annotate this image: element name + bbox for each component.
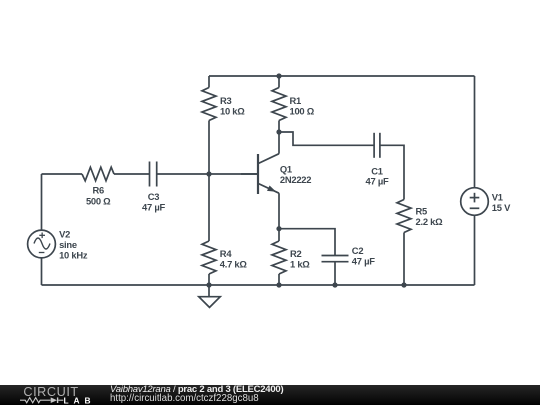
svg-text:V2: V2 [59, 228, 70, 239]
svg-text:V1: V1 [492, 192, 503, 203]
svg-text:500 Ω: 500 Ω [86, 196, 111, 207]
svg-text:R4: R4 [220, 248, 233, 259]
svg-text:C1: C1 [371, 165, 383, 176]
svg-text:R3: R3 [220, 95, 232, 106]
svg-text:2.2 kΩ: 2.2 kΩ [416, 216, 444, 227]
svg-text:100 Ω: 100 Ω [290, 105, 315, 116]
svg-text:4.7 kΩ: 4.7 kΩ [220, 258, 248, 269]
svg-text:R5: R5 [416, 206, 428, 217]
svg-text:LAB: LAB [64, 395, 96, 405]
svg-text:R6: R6 [92, 184, 104, 195]
svg-text:10 kHz: 10 kHz [59, 250, 88, 261]
svg-text:47 µF: 47 µF [352, 255, 375, 266]
svg-text:R2: R2 [290, 248, 302, 259]
svg-text:R1: R1 [290, 95, 302, 106]
svg-text:47 µF: 47 µF [142, 202, 165, 213]
svg-text:10 kΩ: 10 kΩ [220, 105, 245, 116]
svg-text:15 V: 15 V [492, 202, 511, 213]
svg-text:47 µF: 47 µF [366, 176, 389, 187]
svg-text:1 kΩ: 1 kΩ [290, 258, 310, 269]
svg-text:C3: C3 [148, 191, 160, 202]
svg-text:C2: C2 [352, 245, 364, 256]
svg-text:2N2222: 2N2222 [280, 174, 311, 185]
svg-text:sine: sine [59, 239, 77, 250]
